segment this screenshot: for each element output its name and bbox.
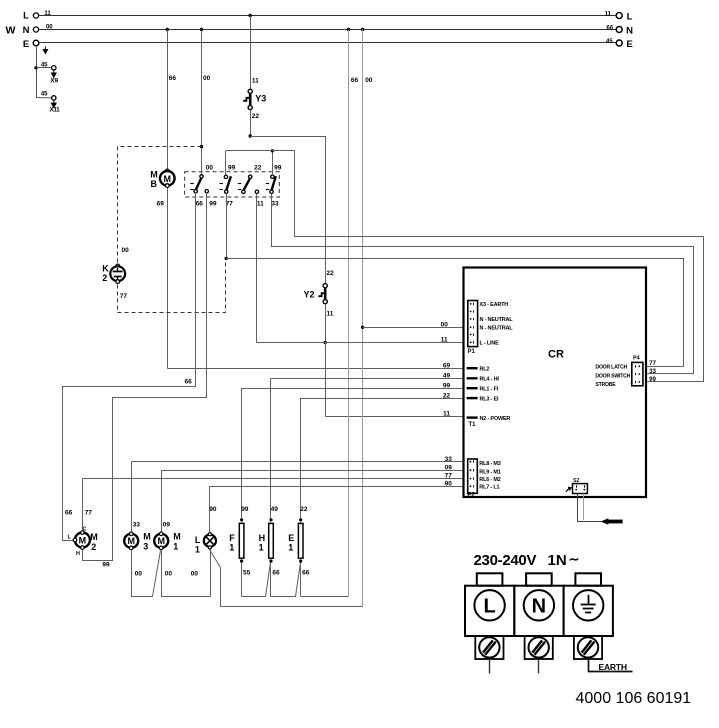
svg-text:99: 99 [228,164,236,171]
svg-text:11: 11 [44,11,51,17]
svg-text:M: M [173,531,181,541]
svg-text:CR: CR [548,349,564,361]
svg-text:11: 11 [252,78,259,85]
svg-text:00: 00 [203,75,211,82]
svg-text:230-240V: 230-240V [474,552,537,569]
svg-text:00: 00 [165,570,173,577]
svg-text:90: 90 [209,506,217,513]
svg-text:∼: ∼ [569,552,580,567]
svg-text:M: M [79,536,87,546]
svg-text:00: 00 [191,570,199,577]
svg-text:RL4 - HI: RL4 - HI [480,377,500,383]
svg-text:00: 00 [46,25,53,31]
svg-text:L: L [483,595,495,617]
svg-text:2: 2 [102,273,107,283]
svg-text:66: 66 [65,510,73,517]
svg-text:69: 69 [157,200,165,207]
svg-text:STROBE: STROBE [595,382,616,388]
svg-text:45: 45 [41,62,48,68]
svg-text:RL2: RL2 [480,366,490,372]
svg-text:33: 33 [445,456,453,463]
svg-text:66: 66 [169,75,177,82]
svg-text:DOOR LATCH: DOOR LATCH [595,365,627,371]
svg-text:N - NEUTRAL: N - NEUTRAL [480,317,514,323]
svg-text:99: 99 [274,164,282,171]
svg-text:3: 3 [143,542,148,552]
svg-text:1N: 1N [548,552,567,569]
svg-text:1: 1 [259,543,264,553]
svg-text:00: 00 [206,164,214,171]
svg-text:E: E [626,39,632,50]
svg-text:X11: X11 [50,107,61,114]
svg-text:33: 33 [133,521,141,528]
svg-text:00: 00 [365,77,373,84]
svg-text:69: 69 [443,362,451,369]
svg-text:99: 99 [649,377,656,383]
svg-text:99: 99 [241,506,249,513]
svg-text:F: F [229,533,235,543]
svg-text:22: 22 [443,392,451,399]
svg-text:1: 1 [288,543,293,553]
svg-text:49: 49 [271,506,279,513]
svg-text:RL1 - FI: RL1 - FI [480,386,499,392]
svg-text:66: 66 [607,25,614,31]
svg-text:77: 77 [445,473,453,480]
svg-text:22: 22 [300,506,308,513]
svg-text:X3 - EARTH: X3 - EARTH [480,302,509,308]
svg-text:K: K [102,264,109,274]
svg-text:Y2: Y2 [304,289,315,299]
svg-text:N - NEUTRAL: N - NEUTRAL [480,326,514,332]
svg-text:77: 77 [120,293,128,300]
svg-text:N2 - POWER: N2 - POWER [480,416,511,422]
svg-text:00: 00 [441,322,449,329]
svg-text:49: 49 [443,373,451,380]
svg-text:22: 22 [254,164,262,171]
svg-text:EARTH: EARTH [599,662,627,672]
svg-text:E: E [288,533,294,543]
svg-text:33: 33 [271,200,279,207]
svg-text:66: 66 [196,200,204,207]
svg-text:11: 11 [257,200,264,207]
svg-text:11: 11 [443,411,450,418]
svg-text:N: N [532,595,546,617]
svg-text:RL3 - EI: RL3 - EI [480,396,500,402]
svg-text:45: 45 [606,39,613,45]
svg-text:N: N [23,25,30,36]
svg-text:00: 00 [135,570,143,577]
svg-text:S2: S2 [573,478,579,484]
svg-text:N: N [626,26,633,37]
svg-text:RL7 - L1: RL7 - L1 [479,485,499,491]
svg-text:99: 99 [209,200,217,207]
svg-text:M: M [164,174,172,184]
svg-text:66: 66 [302,570,310,577]
svg-text:M: M [127,536,135,546]
svg-text:M: M [90,532,98,542]
svg-text:09: 09 [163,521,171,528]
svg-text:11: 11 [605,11,612,17]
svg-text:L: L [195,535,201,545]
svg-text:RL6 - M2: RL6 - M2 [479,477,500,483]
svg-text:M: M [157,536,165,546]
svg-text:E: E [23,39,29,50]
svg-text:09: 09 [445,464,453,471]
svg-text:22: 22 [327,270,335,277]
svg-text:P1: P1 [468,349,476,355]
svg-text:H: H [76,551,80,557]
svg-text:4000 106 60191: 4000 106 60191 [576,690,692,707]
svg-text:X9: X9 [50,78,58,85]
svg-text:77: 77 [85,510,93,517]
svg-text:C: C [83,527,87,533]
svg-text:2: 2 [91,542,96,552]
svg-text:33: 33 [649,369,656,375]
svg-text:L: L [23,11,29,22]
svg-text:1: 1 [173,542,178,552]
svg-text:90: 90 [445,481,453,488]
svg-text:11: 11 [441,337,448,344]
svg-text:DOOR SWITCH: DOOR SWITCH [595,374,630,380]
svg-text:H: H [259,533,266,543]
svg-text:P4: P4 [633,356,641,362]
svg-text:L - LINE: L - LINE [480,341,500,347]
svg-text:00: 00 [122,247,130,254]
svg-text:RL9 - M1: RL9 - M1 [479,470,500,476]
svg-text:1: 1 [195,545,200,555]
svg-text:W: W [5,24,15,36]
svg-text:RL8 - M3: RL8 - M3 [479,461,500,467]
svg-text:B: B [151,179,158,189]
svg-text:P2: P2 [467,492,475,498]
svg-text:45: 45 [41,92,48,98]
svg-text:1: 1 [229,543,234,553]
svg-text:22: 22 [252,113,260,120]
svg-text:11: 11 [327,311,334,318]
svg-text:99: 99 [102,561,110,568]
svg-text:77: 77 [649,361,656,367]
svg-text:99: 99 [443,382,451,389]
svg-text:66: 66 [185,379,193,386]
svg-text:Y3: Y3 [255,93,266,103]
svg-text:M: M [143,531,151,541]
svg-text:66: 66 [351,77,359,84]
svg-text:T1: T1 [469,422,477,428]
svg-text:55: 55 [243,570,251,577]
svg-text:L: L [627,12,633,23]
svg-text:66: 66 [272,570,280,577]
